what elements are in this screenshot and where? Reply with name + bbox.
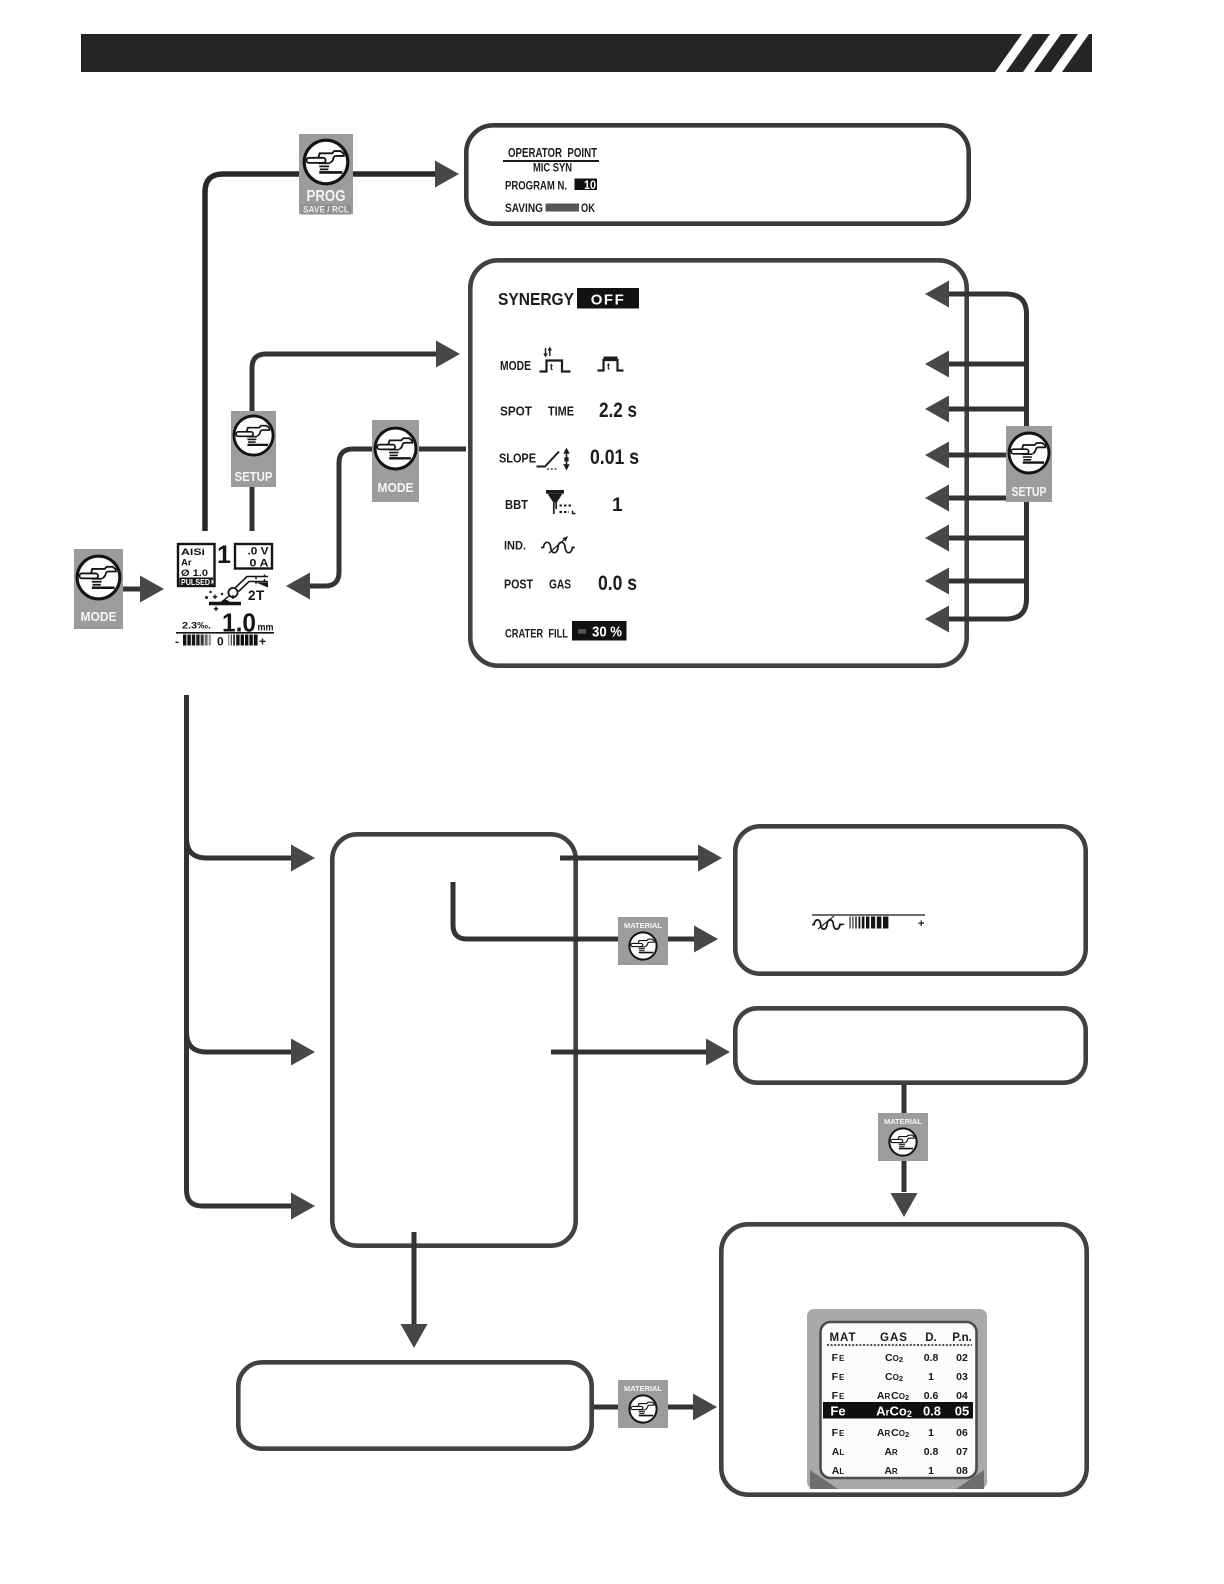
svg-text:0.8: 0.8: [924, 1446, 939, 1458]
svg-text:SAVING: SAVING: [505, 201, 543, 215]
ind icon: [541, 538, 575, 553]
svg-text:MATERIAL: MATERIAL: [624, 1384, 663, 1393]
slope icon: [537, 452, 567, 470]
arrowhead down into bottom-left box: [401, 1324, 428, 1348]
box right inductance: [735, 826, 1085, 973]
table row 07: [832, 1446, 968, 1458]
pulsed inverted tag: [180, 578, 214, 587]
table row 03: [832, 1371, 968, 1383]
mode icon 2T: [598, 357, 624, 371]
svg-text:t: t: [607, 362, 610, 372]
trunk branch 1: [187, 838, 293, 858]
svg-text:-: -: [841, 918, 845, 930]
2T dashes: [255, 577, 257, 587]
svg-text:MIC SYN: MIC SYN: [533, 163, 572, 175]
button MATERIAL 1: [618, 917, 668, 965]
table header dotted rule: [827, 1344, 972, 1346]
arrowhead synergy row4: [925, 442, 949, 469]
svg-text:SYNERGY: SYNERGY: [498, 289, 574, 309]
svg-text:AL: AL: [832, 1446, 845, 1458]
box right small empty: [735, 1008, 1085, 1082]
svg-text:MAT: MAT: [829, 1332, 856, 1344]
svg-text:0.0 s: 0.0 s: [598, 572, 637, 595]
svg-text:MODE: MODE: [378, 480, 414, 495]
svg-text:1: 1: [928, 1465, 934, 1477]
svg-text:1: 1: [217, 541, 231, 569]
svg-text:SETUP: SETUP: [235, 470, 273, 484]
crater fill inverted box: [572, 621, 627, 641]
svg-text:OK: OK: [581, 201, 595, 215]
svg-text:OFF: OFF: [591, 292, 626, 309]
svg-text:ArCo2: ArCo2: [876, 1404, 912, 1420]
button MODE left: [74, 549, 123, 629]
svg-text:1: 1: [928, 1427, 934, 1439]
wire PROG to operator-point box and down to display: [205, 174, 436, 531]
svg-text:07: 07: [956, 1446, 968, 1458]
arrowhead synergy row8: [925, 606, 949, 633]
svg-text:AlSi: AlSi: [181, 547, 205, 558]
svg-text:+: +: [918, 918, 924, 930]
svg-text:AR CO2: AR CO2: [877, 1390, 909, 1402]
wire MODE-center to synergy box and down-left to display: [307, 449, 466, 586]
svg-text:P.n.: P.n.: [952, 1332, 972, 1344]
arrowhead toward display panel: [286, 573, 310, 600]
svg-text:F E: F E: [832, 1371, 845, 1383]
svg-text:AL: AL: [832, 1465, 845, 1477]
header stripe 1: [995, 34, 1033, 72]
svg-text:MATERIAL: MATERIAL: [884, 1117, 923, 1126]
trunk branch 2: [187, 1032, 293, 1052]
table row 02: [832, 1352, 968, 1364]
button SETUP left: [231, 411, 276, 487]
arrowhead into synergy box: [436, 341, 460, 368]
svg-text:F E: F E: [832, 1352, 845, 1364]
svg-text:t: t: [550, 362, 553, 372]
wire MODE-left to display panel: [122, 587, 140, 592]
svg-text:SETUP: SETUP: [1012, 485, 1047, 499]
svg-text:0 A: 0 A: [250, 558, 269, 570]
button MODE center: [372, 420, 419, 502]
arrowhead into right small box: [706, 1039, 730, 1066]
sparks: [213, 595, 235, 612]
arrowhead branch1 into center box: [291, 845, 315, 872]
arrowhead branch2 into center box: [291, 1039, 315, 1066]
torch icon: [221, 577, 268, 603]
svg-text:PULSED: PULSED: [181, 578, 210, 587]
arrowhead branch3 into center box: [291, 1193, 315, 1220]
gauge right bars: [228, 635, 258, 646]
svg-text:AR: AR: [884, 1465, 898, 1477]
svg-text:TIME: TIME: [548, 404, 574, 419]
volt amp box: [235, 544, 272, 569]
svg-text:Ar: Ar: [181, 558, 192, 569]
svg-text:mm: mm: [258, 622, 274, 634]
svg-text:0: 0: [217, 635, 224, 649]
table row 08: [832, 1465, 968, 1477]
arrowhead down into bottom-right box: [891, 1193, 918, 1217]
arrowhead synergy row7: [925, 568, 949, 595]
arrowhead synergy row6: [925, 525, 949, 552]
svg-text:2.2 s: 2.2 s: [599, 399, 637, 422]
inductance squiggle: [812, 916, 842, 929]
button PROG: [299, 134, 353, 215]
bbt icon: [546, 490, 576, 514]
box bottom right material table: [721, 1224, 1086, 1494]
lcd bezel: [807, 1309, 987, 1489]
svg-text:Fe: Fe: [830, 1404, 845, 1419]
torch trigger wedge: [256, 583, 268, 588]
svg-text:GAS: GAS: [549, 577, 571, 592]
svg-text:POST: POST: [504, 577, 533, 592]
svg-text:BBT: BBT: [505, 497, 528, 512]
svg-text:MATERIAL: MATERIAL: [624, 921, 663, 930]
svg-text:0.8: 0.8: [923, 1404, 941, 1419]
svg-text:AR CO2: AR CO2: [877, 1427, 909, 1439]
wire center box bottom down: [412, 1232, 417, 1324]
svg-text:+: +: [259, 635, 266, 649]
lcd bezel corner shade bl: [810, 1470, 838, 1489]
mode icon 4T: [540, 347, 571, 372]
header stripe 2: [1023, 34, 1061, 72]
left trunk wire below display: [187, 695, 293, 1206]
setup bus taps: [948, 364, 1027, 581]
display panel: material box: [178, 544, 215, 586]
svg-text:1: 1: [612, 495, 623, 516]
svg-text:1: 1: [928, 1371, 934, 1383]
button SETUP right: [1006, 426, 1052, 502]
svg-text:0.6: 0.6: [924, 1390, 939, 1402]
svg-text:30 %: 30 %: [592, 625, 622, 641]
box operator point display: [466, 125, 968, 223]
arrowhead material-1 into inductance box: [694, 926, 718, 953]
box synergy menu: [470, 260, 966, 665]
svg-text:F E: F E: [832, 1390, 845, 1402]
wire inner hook to material-1 arrow: [453, 882, 694, 939]
header black bar: [81, 34, 1092, 72]
inductance bars: [850, 917, 889, 929]
svg-text:MODE: MODE: [500, 358, 531, 373]
svg-text:AR: AR: [884, 1446, 898, 1458]
lcd screen: [821, 1322, 977, 1478]
arrowhead synergy row5: [925, 485, 949, 512]
workpiece line: [209, 602, 241, 605]
setup bus vertical with corners: [948, 294, 1027, 619]
arrowhead synergy row3: [925, 396, 949, 423]
svg-text:F E: F E: [832, 1427, 845, 1439]
arrowhead synergy row2: [925, 351, 949, 378]
svg-text:2T: 2T: [248, 588, 265, 603]
wire right small box down to material-2: [902, 1085, 907, 1192]
table row 05 inverted: [823, 1402, 973, 1419]
svg-text:D.: D.: [925, 1332, 937, 1344]
svg-text:10: 10: [584, 180, 596, 192]
arrowhead into inductance box: [698, 845, 722, 872]
svg-text:02: 02: [956, 1352, 968, 1364]
display divider line: [176, 632, 274, 634]
svg-text:2.3‰.: 2.3‰.: [182, 621, 211, 632]
svg-text:.0 V: .0 V: [248, 546, 270, 558]
svg-text:SLOPE: SLOPE: [499, 451, 536, 466]
box bottom left empty: [238, 1362, 591, 1448]
operator point underline: [503, 160, 599, 162]
header stripe 3: [1051, 34, 1089, 72]
program number inverted box: [575, 179, 598, 191]
svg-text:04: 04: [956, 1390, 968, 1402]
svg-text:PROG: PROG: [307, 188, 346, 205]
arrowhead into bottom-right box: [693, 1394, 717, 1421]
svg-text:03: 03: [956, 1371, 968, 1383]
svg-text:05: 05: [955, 1404, 969, 1419]
box center empty: [332, 834, 575, 1245]
synergy off inverted box: [577, 288, 639, 309]
svg-text:CRATER FILL: CRATER FILL: [505, 629, 568, 641]
button MATERIAL 3: [618, 1380, 668, 1428]
svg-text:0.8: 0.8: [924, 1352, 939, 1364]
svg-text:-: -: [175, 635, 179, 649]
saving progress bar: [546, 204, 580, 212]
arrowhead MODE-left: [140, 576, 164, 603]
lcd bezel corner shade br: [956, 1470, 984, 1489]
wire center box to right small box: [551, 1050, 706, 1055]
svg-text:PROGRAM N.: PROGRAM N.: [505, 179, 567, 193]
arrowhead synergy row1: [925, 281, 949, 308]
wire center box to inductance box: [560, 856, 698, 861]
inductance graphic top line: [812, 914, 925, 916]
weld bump: [220, 600, 231, 604]
svg-text:GAS: GAS: [880, 1332, 908, 1344]
svg-text:06: 06: [956, 1427, 968, 1439]
table row 06: [832, 1427, 968, 1439]
svg-text:SPOT: SPOT: [500, 404, 532, 419]
wire SETUP-left up into synergy box: [252, 354, 437, 531]
svg-text:08: 08: [956, 1465, 968, 1477]
svg-text:SAVE / RCL: SAVE / RCL: [303, 205, 350, 215]
button MATERIAL 2: [878, 1113, 928, 1161]
svg-text:0.01 s: 0.01 s: [590, 446, 639, 469]
table row 04: [832, 1390, 968, 1402]
svg-text:OPERATOR POINT: OPERATOR POINT: [508, 146, 597, 160]
svg-text:IND.: IND.: [504, 539, 526, 553]
wire bottom-left box to material-3: [594, 1405, 693, 1410]
svg-text:MODE: MODE: [81, 609, 117, 624]
arrowhead into operator point box: [435, 161, 459, 188]
gauge left bars: [183, 635, 211, 646]
